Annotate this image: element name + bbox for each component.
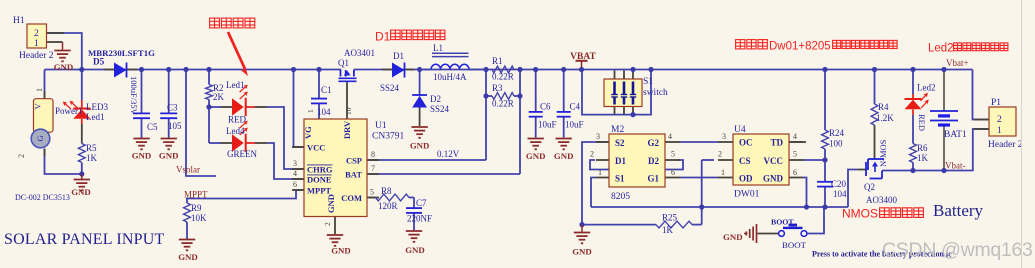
- wire C7 vertical: [413, 198, 415, 209]
- junction C1 on rail: [316, 67, 321, 72]
- capacitor C6 10uF: [529, 111, 543, 113]
- svg-text:Led2: Led2: [928, 43, 954, 55]
- svg-text:3: 3: [722, 132, 726, 141]
- svg-text:VBAT: VBAT: [570, 52, 596, 62]
- svg-text:3: 3: [596, 132, 600, 141]
- svg-text:1: 1: [997, 126, 1002, 136]
- MOSFET Q2 AO3400 NMOS: [868, 158, 884, 160]
- wire D2 branch: [419, 70, 421, 96]
- diode D5 MBR230LSFT1G: [114, 63, 127, 78]
- wire M2 S1 pin1 to line A: [591, 178, 596, 208]
- junction BAT1 on rail: [941, 67, 946, 72]
- svg-text:4: 4: [793, 132, 797, 141]
- capacitor C3 105: [160, 112, 177, 114]
- wire LED3 chain: [81, 70, 83, 101]
- pin stubs P1: [974, 119, 989, 121]
- junction C3 on rail: [166, 67, 171, 72]
- svg-text:DRV: DRV: [342, 120, 352, 139]
- wire BAT1 leads: [943, 70, 945, 111]
- svg-text:SS24: SS24: [430, 104, 450, 114]
- svg-text:CSP: CSP: [346, 156, 362, 166]
- wire MPPT net: [186, 190, 304, 199]
- power port VBAT: [576, 60, 588, 62]
- svg-text:D5: D5: [93, 57, 105, 67]
- wire DW01 GND pin6 down: [803, 178, 807, 208]
- svg-text:1: 1: [721, 168, 725, 177]
- svg-text:100: 100: [829, 139, 843, 149]
- svg-text:R1: R1: [492, 56, 503, 66]
- junction C6 on rail: [533, 67, 538, 72]
- battery BAT1: [930, 110, 958, 112]
- svg-text:Vbat+: Vbat+: [946, 58, 969, 68]
- svg-text:D2: D2: [648, 156, 659, 166]
- wire BOOT button left: [758, 233, 779, 235]
- svg-text:Vbat-: Vbat-: [945, 161, 966, 171]
- wire rail to switch bottom right: [633, 70, 651, 115]
- svg-text:6: 6: [671, 168, 675, 177]
- junction GND/B- node: [579, 222, 584, 227]
- svg-text:2: 2: [997, 115, 1002, 125]
- junction D2 on rail: [417, 67, 422, 72]
- wire R4/Q2 drain vertical: [874, 70, 876, 105]
- svg-text:Vsolar: Vsolar: [176, 165, 200, 175]
- svg-text:V: V: [33, 103, 43, 110]
- svg-text:BOOT: BOOT: [771, 218, 794, 227]
- wire R9 stubs: [186, 199, 188, 204]
- svg-text:GND: GND: [331, 246, 351, 256]
- wire C3 branch: [168, 70, 170, 114]
- ground 8205/S2 net: [581, 225, 583, 232]
- wire R2 chain down: [208, 70, 210, 85]
- svg-text:5: 5: [793, 150, 797, 159]
- svg-text:1K: 1K: [917, 153, 929, 163]
- capacitor C5 100uF/35V: [133, 112, 150, 114]
- LED3 Led1 red LED: [73, 108, 90, 110]
- svg-text:6: 6: [293, 180, 297, 189]
- IC M2 8205 box: [609, 134, 665, 187]
- junction power minus node: [79, 171, 84, 176]
- capacitor C4 10uF: [557, 111, 571, 113]
- pin stubs S1 switch: [614, 71, 616, 80]
- connector Power1 DC jack: [34, 99, 54, 133]
- wire C20 vertical: [824, 160, 826, 182]
- svg-text:R4: R4: [878, 102, 889, 112]
- ground C7: [406, 230, 422, 232]
- junction C20 bottom node: [822, 204, 827, 209]
- svg-text:BOOT: BOOT: [782, 240, 807, 250]
- resistor R5 1K: [78, 144, 85, 163]
- junction C5 on rail: [139, 67, 144, 72]
- svg-text:R24: R24: [829, 128, 845, 138]
- svg-text:GND: GND: [554, 151, 574, 161]
- svg-text:C4: C4: [570, 102, 581, 112]
- svg-text:R25: R25: [662, 213, 678, 223]
- svg-text:VCC: VCC: [307, 143, 325, 153]
- svg-text:7: 7: [371, 164, 375, 173]
- wire Vsolar stub: [186, 70, 216, 177]
- svg-text:2: 2: [590, 150, 594, 159]
- resistor R24 100: [822, 130, 829, 149]
- wire protection net line A: [591, 206, 848, 208]
- pin stubs D1: [382, 69, 392, 71]
- svg-text:GND: GND: [71, 187, 91, 197]
- wire rail corner to P1 pin2: [973, 70, 990, 120]
- ground C3: [161, 138, 177, 140]
- svg-text:AO3400: AO3400: [866, 195, 897, 205]
- wire DW01 CS stub: [702, 159, 714, 161]
- svg-text:R6: R6: [917, 143, 928, 153]
- svg-text:D1: D1: [375, 30, 391, 44]
- svg-text:SOLAR PANEL INPUT: SOLAR PANEL INPUT: [4, 231, 164, 248]
- junction DW01 GND pin node: [804, 204, 809, 209]
- junction CSP/R1 left node: [483, 67, 488, 72]
- pin stub U4 TD: [789, 141, 806, 143]
- svg-text:Led1: Led1: [226, 80, 245, 90]
- svg-text:GND: GND: [526, 151, 546, 161]
- svg-text:1K: 1K: [86, 153, 98, 163]
- svg-text:0.22R: 0.22R: [492, 99, 514, 109]
- svg-text:Power1: Power1: [55, 106, 83, 116]
- inductor L1: [432, 52, 469, 54]
- svg-text:2: 2: [718, 150, 722, 159]
- svg-text:R3: R3: [492, 83, 503, 93]
- ground R9: [179, 239, 195, 241]
- svg-text:CSDN @wmq163: CSDN @wmq163: [882, 239, 1033, 261]
- annotation classic DW01+8205 (CJK): [736, 40, 745, 49]
- resistor R8 120R: [376, 194, 410, 201]
- svg-text:4: 4: [293, 169, 297, 178]
- svg-text:104: 104: [317, 107, 331, 117]
- svg-text:U4: U4: [734, 125, 746, 135]
- svg-text:P1: P1: [991, 98, 1001, 108]
- pushbutton BOOT: [779, 231, 785, 237]
- wire Led1 cathode to CHRG pin3: [246, 106, 255, 108]
- wire line A to Q2 gate: [848, 170, 858, 208]
- ground C4: [556, 138, 572, 140]
- pin stubs M2: [596, 141, 609, 143]
- svg-text:2K: 2K: [213, 92, 225, 102]
- wire R3 stubs: [486, 95, 492, 97]
- junction R6 on Vbat- rail: [910, 168, 915, 173]
- svg-text:0.22R: 0.22R: [492, 72, 514, 82]
- svg-text:GND: GND: [405, 245, 425, 255]
- svg-text:N-MOS: N-MOS: [878, 139, 888, 167]
- svg-text:RED: RED: [917, 114, 927, 131]
- wire Led2 chain: [912, 70, 914, 95]
- svg-text:1K: 1K: [662, 225, 674, 235]
- wire Vbat- rail: [882, 129, 989, 171]
- svg-text:D1: D1: [393, 51, 404, 61]
- wire VBAT rail to switch bottom: [582, 70, 633, 115]
- junction S1 pin on rail: [630, 67, 635, 72]
- ground LED3/R5 bottom: [81, 174, 83, 179]
- svg-text:SS24: SS24: [380, 83, 400, 93]
- svg-text:OD: OD: [739, 174, 753, 184]
- svg-text:105: 105: [168, 121, 182, 131]
- svg-text:S1: S1: [643, 77, 653, 87]
- svg-text:GND: GND: [159, 151, 179, 161]
- svg-text:Led1: Led1: [86, 112, 105, 122]
- svg-text:BAT1: BAT1: [944, 130, 967, 140]
- svg-text:DC-002 DC3513: DC-002 DC3513: [15, 193, 70, 202]
- junction Led2 on rail: [910, 67, 915, 72]
- IC U4 DW01 box: [733, 134, 789, 185]
- wire R25 to CS node: [692, 224, 702, 226]
- svg-text:D2: D2: [430, 94, 441, 104]
- svg-text:C6: C6: [540, 102, 551, 112]
- svg-text:RED: RED: [228, 115, 247, 125]
- ground BOOT (rotated): [746, 224, 756, 243]
- resistor R4 1.2K: [871, 104, 878, 125]
- svg-text:NMOS: NMOS: [842, 207, 878, 221]
- junction H1/LED3 on rail: [79, 67, 84, 72]
- wire jack pin2 down to bottom rail: [45, 149, 82, 175]
- junction Vsolar on rail: [183, 67, 188, 72]
- ground C6: [528, 138, 544, 140]
- svg-text:G1: G1: [647, 174, 659, 184]
- switch S1 box: [604, 79, 642, 107]
- svg-text:U1: U1: [375, 121, 387, 131]
- wire R24 from rail: [824, 70, 826, 131]
- junction BAT1 on Vbat- rail: [941, 168, 946, 173]
- svg-text:R9: R9: [191, 203, 202, 213]
- annotation arrow: [228, 32, 245, 69]
- junction Led1 anode node: [206, 104, 211, 109]
- ground H1: [62, 42, 64, 50]
- svg-text:C1: C1: [321, 85, 332, 95]
- junction VBAT on rail: [579, 67, 584, 72]
- junction R24 on rail: [822, 67, 827, 72]
- pin stubs U1 left: [292, 146, 304, 148]
- svg-text:R5: R5: [86, 143, 97, 153]
- svg-text:10K: 10K: [191, 213, 207, 223]
- svg-text:Q1: Q1: [338, 58, 349, 68]
- svg-text:5: 5: [370, 188, 374, 197]
- svg-text:R8: R8: [381, 186, 392, 196]
- ground D2: [411, 126, 427, 128]
- ground C5: [133, 138, 149, 140]
- svg-text:1: 1: [306, 109, 315, 113]
- svg-text:1: 1: [35, 88, 44, 92]
- resistor R2 2K: [206, 85, 213, 100]
- pin stubs U1 right: [367, 159, 379, 161]
- svg-text:switch: switch: [643, 88, 668, 98]
- svg-text:104: 104: [833, 189, 847, 199]
- wire Led4 cathode to DONE pin4: [246, 142, 255, 144]
- svg-text:1.2K: 1.2K: [876, 113, 894, 123]
- svg-text:M2: M2: [611, 125, 624, 135]
- resistor R3 0.22R: [492, 93, 514, 100]
- junction switch bottom node: [630, 112, 635, 117]
- svg-text:2: 2: [323, 222, 332, 226]
- junction U1 VCC on rail: [291, 67, 296, 72]
- svg-text:8205: 8205: [611, 192, 630, 202]
- svg-text:Led4: Led4: [226, 126, 245, 136]
- svg-text:G: G: [35, 135, 45, 141]
- svg-text:S1: S1: [615, 174, 625, 184]
- wire CS vertical: [701, 160, 703, 225]
- junction DW01 VCC node: [822, 157, 827, 162]
- wire COM to R8: [367, 197, 376, 199]
- screen edge line: [1021, 0, 1023, 268]
- svg-text:VCC: VCC: [764, 156, 784, 166]
- wire R24 to VCC node: [824, 149, 826, 160]
- svg-text:GND: GND: [572, 247, 592, 257]
- pin stubs H1: [47, 32, 65, 34]
- pin stubs U4: [718, 141, 733, 143]
- connector H1 box: [27, 24, 47, 48]
- wire H1 pin2 to rail: [47, 33, 82, 70]
- svg-text:10uF: 10uF: [565, 120, 584, 130]
- wire G1-OD link: [680, 177, 718, 179]
- svg-text:8: 8: [371, 150, 375, 159]
- svg-text:100uF/35V: 100uF/35V: [129, 76, 139, 116]
- junction R3 right node: [517, 93, 522, 98]
- junction C4 on rail: [561, 67, 566, 72]
- pin stubs D5: [104, 69, 114, 71]
- svg-text:COM: COM: [341, 193, 362, 203]
- annotation charging indicator (CJK): [210, 18, 220, 28]
- svg-text:CN3791: CN3791: [372, 132, 404, 142]
- svg-text:CHRG: CHRG: [307, 165, 333, 175]
- resistor R6 1K: [910, 144, 917, 163]
- svg-text:GND: GND: [723, 232, 743, 242]
- wire G2-OC link: [680, 141, 718, 143]
- svg-text:G2: G2: [647, 138, 659, 148]
- svg-text:3: 3: [293, 159, 297, 168]
- svg-text:AO3401: AO3401: [344, 48, 375, 58]
- svg-text:GND: GND: [326, 194, 336, 213]
- svg-text:4: 4: [668, 132, 672, 141]
- capacitor C7 220NF: [406, 207, 422, 209]
- wire VBAT port stem: [581, 61, 583, 70]
- svg-text:Header 2: Header 2: [988, 140, 1023, 150]
- svg-text:C20: C20: [831, 179, 847, 189]
- wire Led1 anode: [209, 106, 221, 108]
- wire BOOT button right to net: [808, 207, 825, 234]
- svg-text:Q2: Q2: [864, 182, 875, 192]
- svg-text:CS: CS: [739, 156, 751, 166]
- junction R2 on rail: [206, 67, 211, 72]
- wire CSP sense net 0.12V: [367, 159, 486, 161]
- svg-text:5: 5: [671, 150, 675, 159]
- wire M2 D1-D2 loop (behind part): [590, 160, 683, 170]
- svg-text:Dw01+8205: Dw01+8205: [769, 40, 831, 52]
- diode D2 SS24: [412, 94, 427, 96]
- connector P1 box: [989, 107, 1016, 136]
- capacitor C1 104: [311, 98, 327, 100]
- svg-text:S2: S2: [615, 138, 625, 148]
- wire C4 branch: [563, 70, 565, 112]
- wire Led4 anode: [209, 142, 221, 144]
- svg-text:0.12V: 0.12V: [437, 149, 460, 159]
- wire M2 S2 pin3 to GND net: [582, 142, 609, 225]
- svg-text:GND: GND: [763, 174, 784, 184]
- svg-text:MPPT: MPPT: [307, 186, 331, 196]
- junction R1 right node: [517, 67, 522, 72]
- svg-text:10: 10: [344, 107, 353, 115]
- svg-text:C7: C7: [416, 198, 427, 208]
- svg-text:MPPT: MPPT: [184, 190, 208, 200]
- wire jack pin1 up: [44, 70, 46, 99]
- svg-text:2: 2: [17, 154, 26, 158]
- svg-text:BAT: BAT: [345, 170, 362, 180]
- svg-text:6: 6: [793, 168, 797, 177]
- wire R8 to C7: [409, 197, 414, 199]
- capacitor C20 104: [817, 181, 833, 183]
- svg-text:10uH/4A: 10uH/4A: [433, 72, 467, 82]
- junction R3 left node: [483, 93, 488, 98]
- svg-text:Header 2: Header 2: [19, 51, 54, 61]
- MOSFET Q1 AO3401 PMOS: [340, 70, 342, 77]
- resistor R1 0.22R: [492, 66, 514, 73]
- svg-text:220NF: 220NF: [407, 214, 432, 224]
- wire C6 branch: [535, 70, 537, 112]
- svg-text:1: 1: [34, 39, 39, 49]
- ground U1 pin2: [327, 234, 343, 236]
- junction S1 right on rail: [648, 67, 653, 72]
- svg-text:C5: C5: [147, 122, 158, 132]
- svg-text:D1: D1: [615, 156, 626, 166]
- IC U1 CN3791 box: [304, 119, 367, 217]
- wire C5 branch: [141, 70, 143, 114]
- wire BAT net: [367, 173, 520, 175]
- junction R4 on rail: [872, 67, 877, 72]
- svg-text:DONE: DONE: [307, 175, 332, 185]
- svg-text:Led2: Led2: [917, 83, 936, 93]
- switch S1 contacts: [613, 82, 616, 95]
- svg-text:LED3: LED3: [86, 102, 108, 112]
- wire GND to R25: [582, 224, 656, 226]
- svg-text:10uF: 10uF: [538, 120, 557, 130]
- svg-text:L1: L1: [433, 43, 443, 53]
- svg-text:GND: GND: [178, 252, 198, 262]
- svg-text:VG: VG: [303, 126, 313, 139]
- svg-text:GND: GND: [410, 141, 430, 151]
- svg-text:TD: TD: [770, 138, 783, 148]
- svg-text:OC: OC: [739, 138, 753, 148]
- resistor R25 1K: [656, 221, 692, 228]
- svg-text:GND: GND: [54, 62, 74, 72]
- diode D1 SS24: [392, 63, 405, 78]
- LED Led4 GREEN: [232, 134, 244, 151]
- svg-text:Battery: Battery: [933, 201, 984, 220]
- svg-text:2: 2: [34, 29, 39, 39]
- wire VCC row to R24/C20: [803, 159, 825, 161]
- junction CS net node: [699, 204, 704, 209]
- wire U1 GND pin: [334, 217, 336, 235]
- svg-text:GREEN: GREEN: [227, 149, 257, 159]
- resistor R9 10K: [184, 203, 191, 222]
- wire VCC from rail: [294, 70, 305, 148]
- svg-text:120R: 120R: [378, 201, 398, 211]
- svg-text:C3: C3: [167, 103, 178, 113]
- wire C1 branch: [318, 70, 320, 99]
- pin stub jack: [44, 91, 46, 99]
- LED Led1 RED: [232, 98, 244, 115]
- svg-text:H1: H1: [13, 16, 25, 26]
- svg-text:1: 1: [598, 168, 602, 177]
- wire DRV gate: [346, 82, 348, 120]
- svg-text:GND: GND: [132, 151, 152, 161]
- wire main top rail: [45, 69, 342, 71]
- LED Led2 red LED: [905, 98, 922, 100]
- svg-text:DW01: DW01: [734, 190, 760, 200]
